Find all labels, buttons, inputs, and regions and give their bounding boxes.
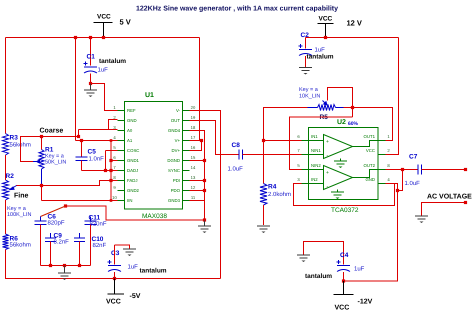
svg-text:100K_LIN: 100K_LIN <box>7 212 31 218</box>
capacitor C2 (tantalum 1uF) <box>299 32 334 67</box>
svg-text:-5V: -5V <box>130 293 141 300</box>
op-amp U2 TCA0372 <box>297 119 390 214</box>
node junction C3 on -5V rail <box>113 277 116 280</box>
svg-text:Coarse: Coarse <box>40 128 64 135</box>
svg-text:IN2: IN2 <box>311 177 318 182</box>
svg-text:GND3: GND3 <box>168 198 181 203</box>
svg-text:C10: C10 <box>92 236 104 243</box>
label R5 key <box>299 87 320 100</box>
wire PDI pin13 to ground column <box>190 180 205 182</box>
label R2 key <box>7 206 31 218</box>
svg-text:VCC: VCC <box>335 305 350 312</box>
capacitor C6 (820pF) <box>35 214 65 266</box>
svg-text:1uF: 1uF <box>98 67 109 74</box>
node junction feedback on GND drop <box>396 189 399 192</box>
node junction C9 on bus <box>49 264 52 267</box>
svg-text:OUT2: OUT2 <box>364 163 376 168</box>
wire C3 top to ground <box>115 245 130 249</box>
svg-text:PDI: PDI <box>173 178 180 183</box>
wire R1 bottom lead <box>41 169 43 186</box>
wire switch common to U1 ground rail <box>66 206 205 220</box>
wire 5V feed to coarse network <box>75 38 77 141</box>
svg-text:tantalum: tantalum <box>307 54 334 61</box>
svg-text:13: 13 <box>191 175 196 180</box>
node junction R-divider feed on 5V rail <box>74 36 77 39</box>
wire left rail upper segment <box>5 38 7 134</box>
svg-text:FADJ: FADJ <box>127 178 138 183</box>
node junction VCC stem on 5V rail <box>102 36 105 39</box>
svg-text:+: + <box>326 139 329 145</box>
svg-text:C4: C4 <box>340 252 349 259</box>
svg-text:DGND: DGND <box>167 158 180 163</box>
wire to A0 pin <box>79 129 118 131</box>
svg-text:+: + <box>326 170 329 176</box>
ground below AC return <box>415 215 428 217</box>
wire DGND pin15 to ground column <box>190 160 205 162</box>
svg-text:C8: C8 <box>232 142 241 149</box>
svg-text:12 V: 12 V <box>347 19 362 28</box>
capacitor C7 (1.0uF) <box>405 154 422 188</box>
capacitor C9 (8.2nF) <box>45 233 69 266</box>
svg-text:82nF: 82nF <box>93 242 107 249</box>
svg-text:SYNC: SYNC <box>168 168 180 173</box>
node junction 12V stem <box>324 36 327 39</box>
wire GND4 pin18 ground column <box>190 131 205 221</box>
ground below U1 <box>204 221 206 226</box>
wire +12V rail <box>306 37 399 39</box>
svg-text:8.2nF: 8.2nF <box>54 239 70 246</box>
svg-text:10: 10 <box>112 195 117 200</box>
node junction ground stub on bus <box>63 264 66 267</box>
potentiometer R5 (10K) <box>308 101 344 122</box>
wire R5 right terminal to OUT1 <box>344 108 393 141</box>
svg-text:C5: C5 <box>88 149 97 156</box>
svg-text:VCC: VCC <box>366 148 375 153</box>
wire to IN1 pin <box>264 140 302 142</box>
svg-text:GND2: GND2 <box>127 188 140 193</box>
node junction DGND <box>203 159 206 162</box>
svg-text:19: 19 <box>191 115 196 120</box>
wire +5V top rail <box>6 37 200 39</box>
node junction wiper net and A0 drop <box>77 135 80 138</box>
node junction IN1 tap <box>262 139 265 142</box>
node junction GND1 tap <box>109 159 112 162</box>
svg-text:20: 20 <box>191 105 196 110</box>
wire DV+ pin16 tie to V+ <box>190 141 202 151</box>
svg-text:GND: GND <box>127 118 137 123</box>
svg-text:V-: V- <box>176 108 181 113</box>
wire A0/GND drop <box>78 130 80 137</box>
wire R1 wiper to A0 net <box>21 137 79 162</box>
wire GND pin2 jog <box>109 120 118 130</box>
wire GND1 pin connection <box>111 160 118 162</box>
ground below R4 <box>257 225 270 227</box>
capacitor C5 (1.0nF) <box>76 141 105 171</box>
potentiometer R2 wiper arrow <box>8 186 17 191</box>
svg-text:R6: R6 <box>10 236 19 243</box>
ground below capacitor bank <box>64 266 66 273</box>
svg-text:TCA0372: TCA0372 <box>331 207 359 214</box>
svg-text:DADJ: DADJ <box>127 168 138 173</box>
svg-text:OUT1: OUT1 <box>364 134 376 139</box>
svg-text:REF: REF <box>127 108 136 113</box>
capacitor C11 (820nF) <box>85 215 107 266</box>
svg-text:17: 17 <box>191 135 196 140</box>
svg-text:V+: V+ <box>175 138 181 143</box>
capacitor C8 (1.0uF) <box>228 142 244 173</box>
svg-text:10K_LIN: 10K_LIN <box>299 94 320 100</box>
node junction tie column on A1 wire <box>110 139 113 142</box>
svg-text:VCC: VCC <box>106 299 121 306</box>
svg-text:1uF: 1uF <box>315 47 326 54</box>
potentiometer R1 (Coarse 50K) <box>33 147 66 170</box>
svg-text:C3: C3 <box>111 250 120 257</box>
svg-text:R3: R3 <box>10 135 19 142</box>
svg-text:820nF: 820nF <box>90 221 107 228</box>
svg-text:A0: A0 <box>127 128 133 133</box>
wire 12V down to U2 VCC pin <box>386 38 399 155</box>
capacitor C4 (tantalum 1uF) <box>305 252 365 281</box>
wire A1-to-IIN tie column <box>110 141 112 201</box>
svg-text:1.0uF: 1.0uF <box>228 166 244 173</box>
capacitor C1 (tantalum 1uF) <box>84 38 127 84</box>
wire COSC pin connection <box>106 150 118 152</box>
svg-text:14: 14 <box>191 165 196 170</box>
svg-text:tantalum: tantalum <box>140 268 167 275</box>
wire rail R6 to bottom rail <box>5 250 7 280</box>
wire COSC down to DADJ wire <box>105 151 107 171</box>
wire OUT pin19 to C8 <box>190 121 239 155</box>
svg-text:11: 11 <box>191 195 196 200</box>
node junction PDO <box>203 189 206 192</box>
wire IN2 ground loop <box>294 184 395 206</box>
ground left of C4 <box>297 254 310 256</box>
wire A1 row from 5V feed to pin A1 <box>76 140 118 142</box>
node junction C4 bottom <box>342 279 345 282</box>
ground below C2 <box>299 67 312 69</box>
node junction PDI <box>203 179 206 182</box>
svg-text:12: 12 <box>191 185 196 190</box>
node junction C5 top on A1 wire <box>80 139 83 142</box>
svg-text:U1: U1 <box>145 92 154 99</box>
svg-text:U2: U2 <box>337 119 346 126</box>
svg-text:1.0uF: 1.0uF <box>405 180 421 187</box>
wire V+ pin17 from 5V rail <box>190 38 200 141</box>
node junction ground rail under U1 <box>203 218 206 221</box>
wire GND pin4 to -12V net <box>344 184 398 282</box>
wire C5 bottom to DADJ pin <box>82 170 118 172</box>
potentiometer R2 (Fine) <box>3 173 15 200</box>
wire capacitor bank bottom bus <box>41 265 91 267</box>
wire rail R2 to R6 <box>5 200 7 234</box>
svg-text:NIN2: NIN2 <box>311 163 321 168</box>
svg-text:MAX038: MAX038 <box>142 213 167 220</box>
svg-text:820pF: 820pF <box>48 220 65 227</box>
ground inside U2 amp1 <box>340 159 342 161</box>
svg-text:AC VOLTAGE: AC VOLTAGE <box>427 194 472 201</box>
node junction R1 top <box>40 135 43 138</box>
svg-text:15: 15 <box>191 155 196 160</box>
svg-text:1.0nF: 1.0nF <box>89 156 105 163</box>
wire C1 to REF pin <box>91 84 118 111</box>
node junction C1 bottom <box>89 82 92 85</box>
wire R1 top connection <box>41 137 43 150</box>
power VCC -12V symbol <box>334 281 373 312</box>
wire AC return to ground <box>422 203 466 216</box>
node junction C1 on 5V rail <box>89 36 92 39</box>
svg-text:COSC: COSC <box>127 148 139 153</box>
node switch pivot <box>64 204 67 207</box>
wire R2 wiper to FADJ <box>16 181 118 186</box>
ground right of C3 <box>123 248 136 250</box>
ground below C1 <box>90 84 92 90</box>
node junction OUT2 <box>401 168 404 171</box>
svg-text:OUT: OUT <box>171 118 180 123</box>
svg-text:DV+: DV+ <box>172 148 181 153</box>
svg-text:R1: R1 <box>45 147 54 154</box>
svg-text:IN1: IN1 <box>311 134 318 139</box>
svg-text:IIN: IIN <box>127 198 133 203</box>
wire GND3 pin11 to ground column <box>190 200 205 202</box>
capacitor C10 (82nF) <box>74 233 107 266</box>
svg-text:tantalum: tantalum <box>305 273 332 280</box>
wire V- pin20 to -5V rail <box>190 111 221 279</box>
power VCC -5V symbol <box>106 279 141 306</box>
svg-text:1uF: 1uF <box>354 266 365 273</box>
wire -5V bottom rail <box>6 278 221 280</box>
ground inside U2 amp2 <box>337 190 339 192</box>
svg-text:C2: C2 <box>301 32 310 39</box>
svg-text:2.0kohm: 2.0kohm <box>268 191 291 198</box>
capacitor C3 (tantalum 1uF) <box>108 245 167 279</box>
svg-text:Key = a: Key = a <box>299 87 319 93</box>
resistor R4 (2.0kohm) <box>260 184 291 226</box>
wire R5 wiper loop <box>328 88 353 118</box>
svg-text:C6: C6 <box>48 214 57 221</box>
svg-text:C1: C1 <box>87 54 96 61</box>
svg-text:C7: C7 <box>409 154 418 161</box>
svg-text:PDO: PDO <box>171 188 181 193</box>
svg-text:VCC: VCC <box>97 14 111 21</box>
svg-text:C11: C11 <box>89 215 101 222</box>
svg-text:122KHz Sine wave generator , w: 122KHz Sine wave generator , with 1A max… <box>136 5 338 13</box>
wire IIN row (to pin 10) <box>42 200 118 202</box>
op-amp U2 triangle 2 <box>324 166 353 190</box>
node junction wiper to R5 right <box>351 106 354 109</box>
wire PDO pin12 to ground column <box>190 190 205 192</box>
node junction R1 bottom on FADJ wire <box>40 184 43 187</box>
svg-text:GND4: GND4 <box>168 128 181 133</box>
svg-text:50K_LIN: 50K_LIN <box>45 160 66 166</box>
node junction C10 on bus <box>78 264 81 267</box>
svg-text:5 V: 5 V <box>120 18 131 27</box>
node junction DV+ tie <box>200 139 203 142</box>
svg-text:-12V: -12V <box>358 299 373 306</box>
resistor R6 <box>3 234 31 250</box>
switch arm selecting C6 <box>41 206 66 217</box>
svg-text:VCC: VCC <box>319 16 333 23</box>
svg-text:NIN1: NIN1 <box>311 148 321 153</box>
svg-text:R4: R4 <box>268 184 277 191</box>
op-chip U1 MAX038 <box>112 92 196 220</box>
svg-text:1uF: 1uF <box>128 264 139 271</box>
node junction tie column on IIN wire <box>110 199 113 202</box>
node AC return terminal <box>464 201 467 204</box>
wire rail R3 to R2 <box>5 155 7 180</box>
wire ground to C4 top <box>304 242 344 265</box>
svg-text:R2: R2 <box>6 173 15 180</box>
svg-text:16: 16 <box>191 145 196 150</box>
wire C7 to output terminal <box>422 169 466 171</box>
svg-text:Fine: Fine <box>14 192 28 200</box>
power VCC +12V symbol <box>318 16 362 38</box>
node junction FADJ tap <box>109 179 112 182</box>
wire R1 bottom down to IIN wire <box>41 186 43 201</box>
wire OUT2 feedback stub <box>398 170 403 191</box>
resistor R3 <box>3 134 31 156</box>
wire C8 to NIN1 pin <box>243 154 302 156</box>
power VCC +5V symbol <box>94 14 131 38</box>
node output terminal <box>464 168 467 171</box>
svg-text:56kohm: 56kohm <box>10 242 31 249</box>
node junction DADJ taps <box>104 169 107 172</box>
svg-text:60%: 60% <box>348 121 359 127</box>
svg-text:tantalum: tantalum <box>99 58 126 65</box>
svg-text:18: 18 <box>191 125 196 130</box>
wire feedback to NIN2 <box>290 117 353 170</box>
wire OUT2 to C7 <box>386 169 418 171</box>
svg-text:GND1: GND1 <box>127 158 140 163</box>
svg-text:A1: A1 <box>127 138 133 143</box>
wire R5 left to R4 top <box>264 108 308 184</box>
